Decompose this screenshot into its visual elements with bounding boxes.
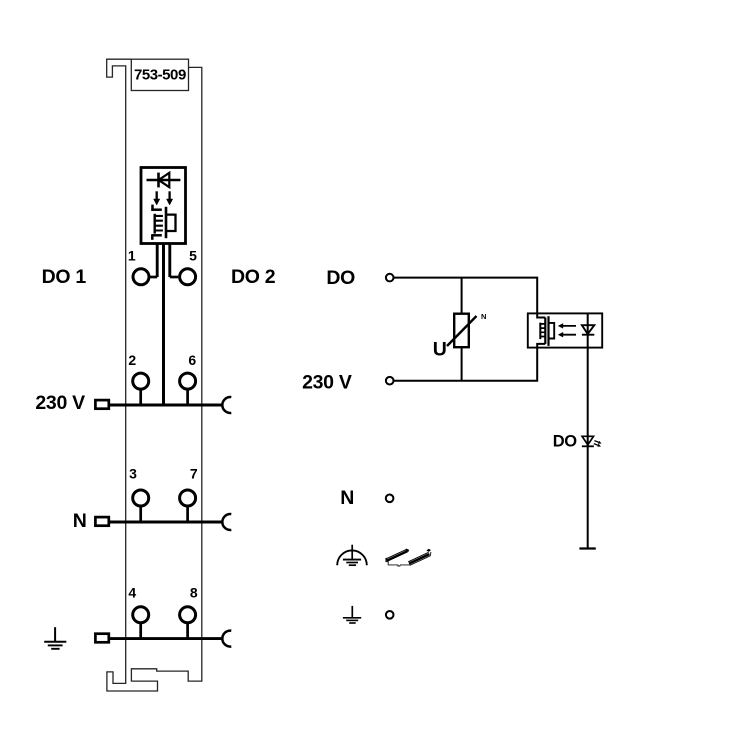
svg-text:4: 4 — [128, 584, 136, 600]
svg-text:U: U — [433, 339, 447, 361]
svg-text:230 V: 230 V — [35, 392, 85, 414]
svg-text:230 V: 230 V — [302, 372, 352, 394]
svg-text:DO: DO — [326, 267, 355, 289]
svg-text:N: N — [340, 487, 354, 509]
svg-text:2: 2 — [128, 352, 136, 368]
svg-text:8: 8 — [190, 584, 198, 600]
svg-text:7: 7 — [190, 465, 198, 481]
svg-text:DO 1: DO 1 — [42, 266, 87, 288]
svg-text:N: N — [73, 510, 87, 532]
svg-text:DO 2: DO 2 — [231, 266, 276, 288]
svg-text:N: N — [481, 312, 486, 321]
svg-text:6: 6 — [188, 352, 196, 368]
svg-text:3: 3 — [129, 465, 137, 481]
svg-text:1: 1 — [128, 248, 136, 264]
svg-text:DO: DO — [553, 433, 578, 451]
svg-text:5: 5 — [189, 248, 197, 264]
svg-text:753-509: 753-509 — [134, 66, 186, 83]
